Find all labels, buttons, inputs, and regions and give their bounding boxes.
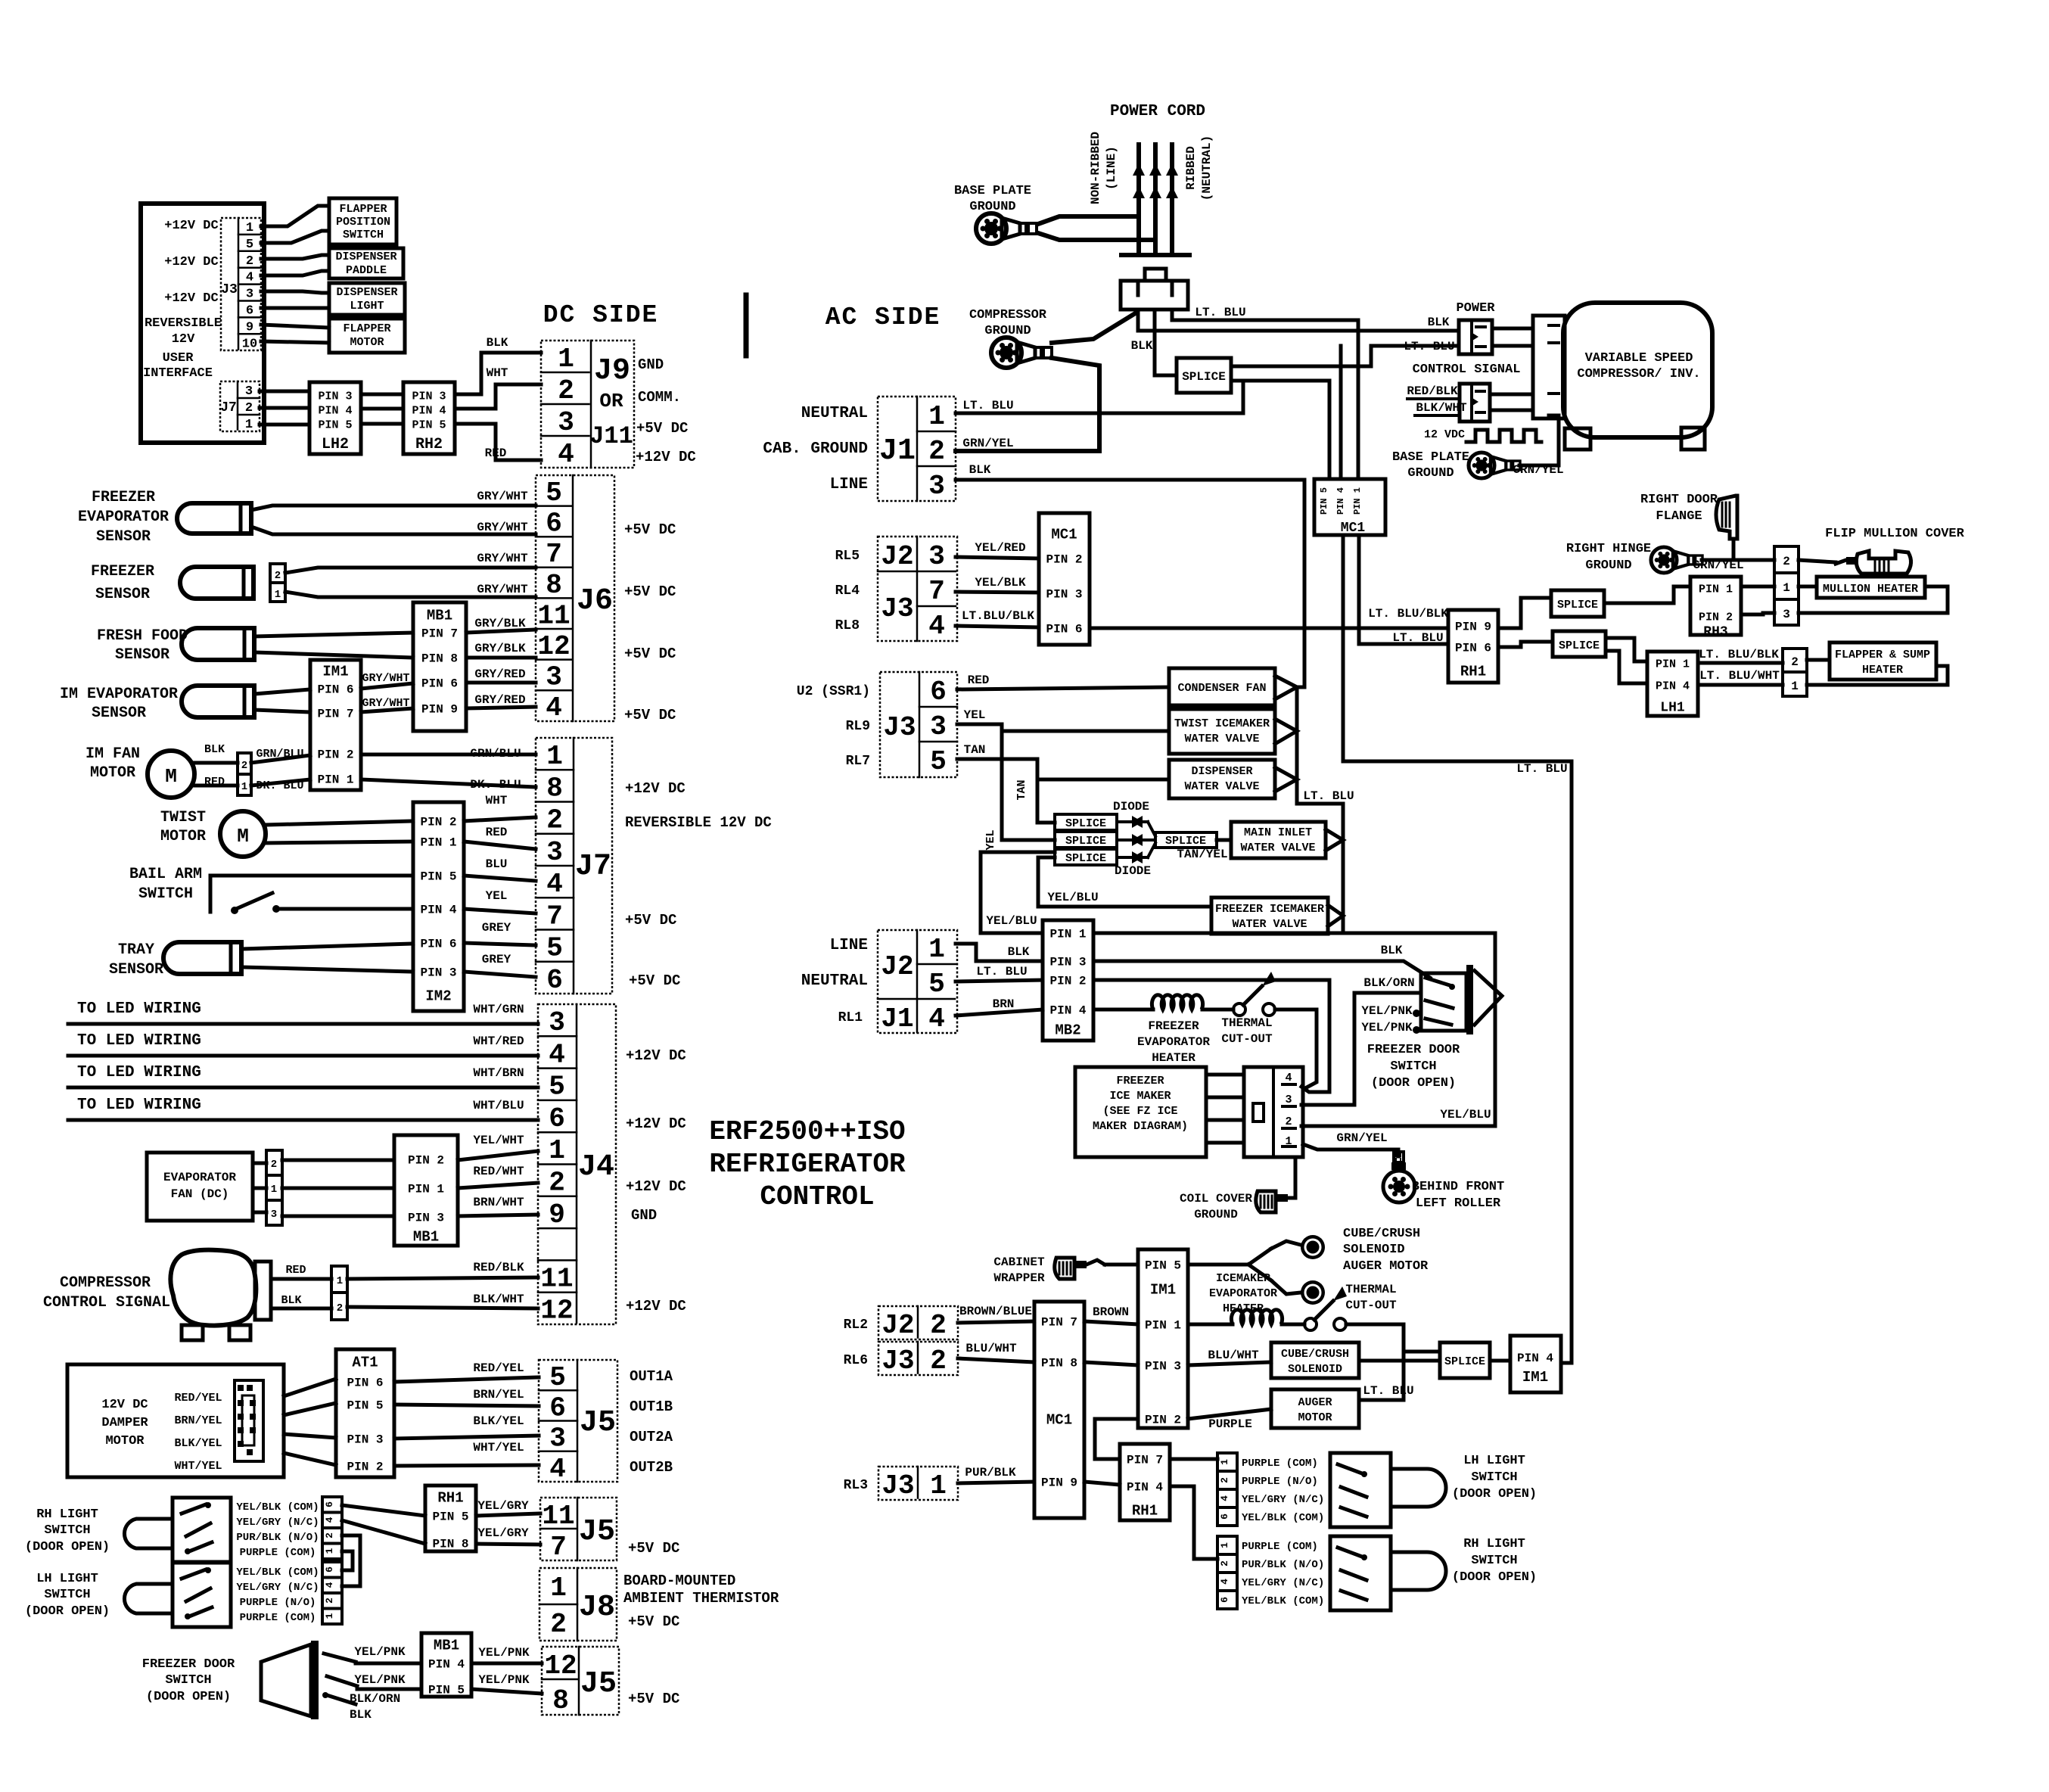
LH light switch connector (right) — [1217, 1453, 1237, 1526]
svg-text:7: 7 — [546, 901, 563, 932]
svg-text:1: 1 — [246, 221, 253, 235]
wire splice2 to LH1 pin4 — [1606, 651, 1647, 683]
connector MC1 (top) — [1314, 479, 1385, 535]
svg-text:6: 6 — [324, 1566, 335, 1573]
svg-text:4: 4 — [1219, 1495, 1230, 1501]
svg-text:BLK: BLK — [969, 463, 991, 477]
svg-text:TWIST ICEMAKER: TWIST ICEMAKER — [1174, 717, 1270, 730]
svg-text:2: 2 — [241, 760, 247, 772]
svg-text:THERMAL: THERMAL — [1221, 1016, 1272, 1030]
wire 2-1 pin2 to flapper heater — [1807, 658, 1830, 662]
svg-text:YEL/GRY (N/C): YEL/GRY (N/C) — [236, 1582, 319, 1594]
svg-text:4: 4 — [549, 1039, 565, 1070]
svg-text:PIN 8: PIN 8 — [1041, 1357, 1077, 1370]
svg-text:GRN/YEL: GRN/YEL — [1336, 1131, 1387, 1145]
svg-text:MB2: MB2 — [1055, 1022, 1080, 1039]
svg-text:+5V DC: +5V DC — [628, 1540, 679, 1557]
svg-text:RIGHT DOOR: RIGHT DOOR — [1640, 493, 1718, 507]
svg-text:10: 10 — [242, 337, 257, 351]
svg-text:CUBE/CRUSH: CUBE/CRUSH — [1343, 1227, 1420, 1241]
splice 3 — [1055, 849, 1117, 865]
svg-text:BLK/ORN: BLK/ORN — [1363, 976, 1414, 990]
svg-text:LT. BLU: LT. BLU — [1303, 789, 1354, 803]
splice 4 — [1155, 832, 1217, 848]
svg-text:GRY/WHT: GRY/WHT — [477, 521, 528, 534]
wire rh1 pin6 to splice2 — [1498, 642, 1553, 647]
svg-text:PUR/BLK (N/O): PUR/BLK (N/O) — [1242, 1559, 1324, 1571]
freezer door switch enclosure wire — [1093, 933, 1495, 1126]
svg-text:2: 2 — [930, 1310, 947, 1341]
svg-text:EVAPORATOR: EVAPORATOR — [1209, 1287, 1277, 1300]
svg-text:FREEZER ICEMAKER: FREEZER ICEMAKER — [1215, 903, 1324, 916]
svg-text:SWITCH: SWITCH — [1390, 1059, 1436, 1074]
svg-text:IM2: IM2 — [425, 988, 451, 1005]
svg-text:1: 1 — [1791, 680, 1799, 693]
connector RH1 (icemaker side) — [1120, 1444, 1170, 1520]
svg-text:J1: J1 — [879, 434, 916, 468]
svg-text:2: 2 — [928, 436, 945, 467]
connector J1 — [878, 397, 956, 501]
svg-text:J5: J5 — [579, 1515, 615, 1549]
svg-text:OR: OR — [599, 390, 623, 412]
wire splice top to RH3 pin1 — [1604, 586, 1690, 603]
wire LH1 pin4 to 2-1 connector — [1698, 683, 1783, 687]
svg-text:WHT/BRN: WHT/BRN — [473, 1066, 524, 1080]
svg-text:J2: J2 — [881, 1310, 914, 1341]
svg-text:TO LED WIRING: TO LED WIRING — [77, 1000, 201, 1018]
svg-text:7: 7 — [550, 1532, 567, 1563]
svg-text:BASE PLATE: BASE PLATE — [1392, 450, 1469, 465]
svg-text:RL9: RL9 — [846, 719, 870, 734]
svg-text:YEL/BLK (COM): YEL/BLK (COM) — [1242, 1595, 1324, 1607]
svg-text:+12V DC: +12V DC — [164, 255, 218, 269]
svg-text:FLIP MULLION COVER: FLIP MULLION COVER — [1825, 527, 1964, 541]
svg-text:3: 3 — [549, 1423, 566, 1454]
cube/crush solenoid box — [1271, 1342, 1359, 1378]
wire J3-10 to flapper motor — [261, 341, 329, 343]
wire base plate ground to compressor conn — [1519, 415, 1559, 465]
svg-text:LT. BLU: LT. BLU — [1516, 762, 1567, 776]
svg-text:WATER VALVE: WATER VALVE — [1184, 780, 1259, 793]
connector IM1 (sensors) — [310, 660, 361, 790]
svg-text:AUGER MOTOR: AUGER MOTOR — [1343, 1259, 1429, 1274]
svg-text:8: 8 — [552, 1685, 569, 1716]
svg-text:LT. BLU/BLK: LT. BLU/BLK — [1368, 607, 1448, 621]
svg-text:LH LIGHT: LH LIGHT — [36, 1572, 98, 1586]
svg-text:J1: J1 — [881, 1003, 913, 1034]
svg-text:3: 3 — [930, 711, 947, 742]
svg-text:11: 11 — [542, 1501, 574, 1532]
svg-text:3: 3 — [928, 471, 945, 502]
svg-text:PIN 1: PIN 1 — [408, 1183, 444, 1196]
svg-text:M: M — [237, 825, 249, 848]
svg-text:WHT/RED: WHT/RED — [473, 1034, 524, 1048]
svg-text:COMPRESSOR: COMPRESSOR — [969, 308, 1047, 322]
svg-text:POWER: POWER — [1456, 301, 1495, 316]
svg-text:LH LIGHT: LH LIGHT — [1463, 1454, 1525, 1468]
wire fresh food sensor to MB1 pin8 — [254, 652, 413, 658]
svg-text:SOLENOID: SOLENOID — [1343, 1243, 1405, 1257]
svg-text:NEUTRAL: NEUTRAL — [801, 405, 868, 422]
wire RL7 to dispenser valve — [1037, 778, 1169, 782]
wire MC1 pin4 down to LT.BLU bus — [1343, 535, 1572, 761]
svg-text:GRY/WHT: GRY/WHT — [477, 583, 528, 596]
svg-text:HEATER: HEATER — [1862, 664, 1903, 677]
svg-text:GREY: GREY — [482, 953, 511, 966]
svg-text:TO LED WIRING: TO LED WIRING — [77, 1064, 201, 1081]
svg-text:4: 4 — [928, 1003, 945, 1034]
diode fan-in to splice4 — [1148, 822, 1155, 836]
wire J3-3 to dispenser light — [261, 291, 329, 293]
svg-text:BROWN: BROWN — [1093, 1305, 1129, 1319]
connector J2/J3 (RL5 RL4 RL8) — [878, 537, 957, 641]
svg-text:3: 3 — [558, 407, 574, 438]
svg-text:J9: J9 — [594, 354, 630, 388]
svg-text:PADDLE: PADDLE — [346, 264, 387, 277]
svg-text:MB1: MB1 — [413, 1229, 439, 1246]
svg-text:SPLICE: SPLICE — [1165, 835, 1206, 848]
svg-text:RH1: RH1 — [1132, 1503, 1158, 1520]
wires RH switch conn to RH1 — [342, 1505, 425, 1516]
svg-text:MB1: MB1 — [434, 1638, 459, 1654]
RH light switch connector (right) — [1217, 1536, 1237, 1609]
svg-text:(SEE FZ ICE: (SEE FZ ICE — [1102, 1105, 1177, 1118]
connector RH1 (mullion) — [1448, 610, 1498, 683]
flapper motor box — [329, 319, 405, 353]
svg-text:DC SIDE: DC SIDE — [543, 301, 659, 329]
svg-text:3: 3 — [271, 1209, 277, 1221]
IM fan motor 2-pin connector — [238, 753, 251, 795]
svg-text:1: 1 — [1219, 1459, 1230, 1465]
behind front left roller lug — [1394, 1152, 1404, 1162]
svg-text:OUT1B: OUT1B — [630, 1398, 673, 1415]
svg-text:SENSOR: SENSOR — [92, 705, 146, 722]
svg-text:RH2: RH2 — [415, 436, 443, 453]
wire hinge ground to 2-1-3 connector — [1702, 558, 1774, 562]
svg-text:PURPLE (N/O): PURPLE (N/O) — [240, 1597, 316, 1609]
svg-text:RL8: RL8 — [835, 618, 860, 633]
svg-text:+12V DC: +12V DC — [626, 1298, 686, 1314]
svg-text:SPLICE: SPLICE — [1065, 835, 1106, 848]
svg-text:RL7: RL7 — [846, 754, 870, 769]
connector J5 (11/7) — [540, 1498, 617, 1560]
svg-text:PIN 2: PIN 2 — [1046, 553, 1082, 567]
svg-text:FREEZER: FREEZER — [91, 563, 154, 580]
svg-text:4: 4 — [928, 611, 945, 642]
svg-text:BRN: BRN — [993, 997, 1015, 1011]
svg-text:DISPENSER: DISPENSER — [1191, 765, 1252, 778]
condenser fan box — [1169, 668, 1275, 705]
svg-text:CUT-OUT: CUT-OUT — [1345, 1299, 1397, 1312]
svg-text:SWITCH: SWITCH — [1471, 1470, 1517, 1485]
connector RH2 — [403, 382, 455, 454]
svg-text:LT. BLU/WHT: LT. BLU/WHT — [1699, 669, 1780, 683]
svg-text:PIN 1: PIN 1 — [1352, 487, 1363, 515]
wire evap fan conn to MB1 pin3 — [282, 1215, 394, 1218]
svg-text:BLU/WHT: BLU/WHT — [965, 1342, 1017, 1355]
svg-text:SENSOR: SENSOR — [115, 646, 169, 664]
svg-text:1: 1 — [271, 1184, 277, 1196]
compressor inline connector 1/2 — [331, 1266, 347, 1320]
svg-text:BLU/WHT: BLU/WHT — [1208, 1349, 1259, 1362]
svg-text:BRN/WHT: BRN/WHT — [473, 1196, 524, 1209]
svg-text:J7: J7 — [575, 850, 611, 884]
evaporator fan (DC) box — [147, 1153, 253, 1221]
thermal cut-out (icemaker) — [1282, 1323, 1304, 1327]
wire J3-6 to dispenser light — [261, 306, 329, 310]
svg-text:FLANGE: FLANGE — [1656, 509, 1702, 524]
svg-text:POSITION: POSITION — [336, 216, 390, 229]
svg-text:PIN 3: PIN 3 — [318, 390, 352, 403]
svg-text:(DOOR OPEN): (DOOR OPEN) — [146, 1690, 231, 1704]
wire thermal cutout down to splice — [1404, 1350, 1440, 1354]
svg-text:PIN 5: PIN 5 — [347, 1399, 383, 1413]
auger motor box — [1271, 1389, 1359, 1428]
svg-text:SWITCH: SWITCH — [44, 1523, 90, 1538]
svg-text:J4: J4 — [578, 1150, 614, 1184]
wire evap fan conn to MB1 pin2 — [282, 1159, 394, 1162]
svg-text:1: 1 — [337, 1275, 343, 1287]
svg-text:WHT: WHT — [486, 794, 508, 807]
svg-text:GRN/YEL: GRN/YEL — [962, 437, 1013, 450]
compressor symbol — [170, 1250, 256, 1326]
svg-text:J7: J7 — [220, 400, 237, 415]
cube/crush solenoid lug — [1301, 1235, 1325, 1259]
svg-text:IM1: IM1 — [1522, 1369, 1548, 1386]
svg-text:YEL/PNK: YEL/PNK — [478, 1673, 530, 1687]
svg-text:WRAPPER: WRAPPER — [993, 1271, 1045, 1285]
svg-text:RIBBED: RIBBED — [1184, 146, 1198, 190]
svg-text:PIN 1: PIN 1 — [1145, 1319, 1181, 1333]
svg-text:WATER VALVE: WATER VALVE — [1232, 918, 1307, 931]
wire MC1 pin8 to IM1 pin3 — [1084, 1362, 1138, 1365]
right hinge ground lug — [1651, 547, 1702, 573]
connector J7 (user interface) — [220, 381, 260, 431]
connector LH2 — [309, 382, 361, 454]
power relay symbol — [1459, 320, 1492, 354]
svg-text:ICEMAKER: ICEMAKER — [1216, 1272, 1270, 1285]
svg-text:9: 9 — [246, 320, 253, 334]
wire RH1 pin7 to LH connector — [1170, 1458, 1217, 1461]
svg-text:+5V DC: +5V DC — [629, 972, 680, 989]
svg-text:PIN 6: PIN 6 — [1455, 642, 1491, 655]
svg-text:YEL/RED: YEL/RED — [975, 541, 1025, 555]
connector MB2 — [1043, 920, 1093, 1041]
svg-text:YEL/BLU: YEL/BLU — [1047, 891, 1098, 904]
wire J3-9 to flapper motor — [261, 325, 329, 328]
svg-text:BEHIND FRONT: BEHIND FRONT — [1412, 1180, 1504, 1194]
svg-text:MAIN INLET: MAIN INLET — [1244, 826, 1312, 839]
freezer icemaker water valve box — [1211, 898, 1328, 934]
svg-text:BLK/YEL: BLK/YEL — [174, 1437, 222, 1450]
svg-text:9: 9 — [549, 1199, 565, 1230]
svg-text:PURPLE (COM): PURPLE (COM) — [240, 1547, 316, 1559]
svg-text:YEL: YEL — [984, 829, 997, 850]
svg-text:6: 6 — [549, 1103, 565, 1134]
svg-text:RL4: RL4 — [835, 583, 860, 599]
wire icemaker pin1 to coil cover ground — [1288, 1157, 1295, 1198]
svg-text:3: 3 — [549, 1007, 565, 1038]
damper fanout wires — [284, 1379, 336, 1396]
svg-text:J3: J3 — [881, 593, 913, 624]
connector RH3 — [1690, 577, 1741, 635]
svg-text:AT1: AT1 — [352, 1355, 378, 1371]
wire flapper heater loop — [1807, 666, 1948, 685]
svg-text:PUR/BLK (N/O): PUR/BLK (N/O) — [236, 1532, 319, 1544]
svg-text:EVAPORATOR: EVAPORATOR — [1137, 1035, 1210, 1049]
svg-text:ICE MAKER: ICE MAKER — [1109, 1090, 1171, 1103]
svg-text:12: 12 — [540, 1296, 573, 1327]
svg-text:4: 4 — [1219, 1579, 1230, 1585]
svg-text:2: 2 — [1219, 1477, 1230, 1483]
svg-text:LH1: LH1 — [1660, 700, 1685, 715]
svg-text:PIN 2: PIN 2 — [1049, 975, 1086, 988]
svg-text:PIN 4: PIN 4 — [1656, 680, 1690, 692]
svg-text:PIN 5: PIN 5 — [432, 1510, 468, 1524]
wire splice to PIN4 IM1 — [1490, 1359, 1510, 1363]
svg-text:RL1: RL1 — [838, 1010, 863, 1025]
svg-text:FLAPPER: FLAPPER — [343, 322, 390, 335]
wire evaporator sensor to IM1 pin7 — [254, 710, 310, 712]
svg-text:POWER CORD: POWER CORD — [1110, 103, 1205, 120]
svg-text:MOTOR: MOTOR — [1298, 1411, 1332, 1424]
svg-text:+5V DC: +5V DC — [624, 646, 676, 662]
svg-text:DIODE: DIODE — [1115, 864, 1151, 878]
svg-text:LT.BLU/BLK: LT.BLU/BLK — [962, 609, 1034, 623]
svg-text:1: 1 — [558, 344, 574, 375]
svg-text:2: 2 — [337, 1302, 343, 1314]
svg-text:SWITCH: SWITCH — [343, 229, 384, 241]
wire MB2 pin2 LT. BLU to icemaker pin4 — [1093, 980, 1329, 1092]
svg-text:OUT2B: OUT2B — [630, 1459, 673, 1476]
svg-text:VARIABLE SPEED: VARIABLE SPEED — [1585, 351, 1693, 366]
svg-text:BRN/YEL: BRN/YEL — [473, 1388, 524, 1402]
svg-text:GND: GND — [638, 356, 664, 373]
wire splice4 to main inlet valve — [1217, 838, 1231, 842]
svg-text:YEL/BLK (COM): YEL/BLK (COM) — [236, 1566, 319, 1579]
wire rh1 pin9 to splice top — [1498, 598, 1551, 628]
connector 2/1/3 (mullion) — [1774, 546, 1799, 625]
wire IM1 pin2 left elbow — [1095, 1419, 1138, 1459]
svg-text:CONTROL SIGNAL: CONTROL SIGNAL — [1413, 362, 1521, 377]
svg-text:2: 2 — [550, 1609, 567, 1640]
svg-text:CABINET: CABINET — [993, 1255, 1045, 1269]
control relay symbol — [1460, 384, 1490, 422]
wires power relay to compressor connector — [1492, 327, 1533, 331]
svg-text:2: 2 — [549, 1168, 565, 1199]
svg-text:WHT/YEL: WHT/YEL — [174, 1460, 222, 1473]
svg-text:5: 5 — [930, 746, 947, 777]
connector J8 — [539, 1568, 617, 1641]
svg-text:SOLENOID: SOLENOID — [1288, 1363, 1342, 1376]
svg-text:MC1: MC1 — [1051, 527, 1077, 543]
svg-text:PIN 3: PIN 3 — [347, 1433, 383, 1447]
svg-text:4: 4 — [546, 869, 563, 900]
svg-text:5: 5 — [549, 1072, 565, 1103]
svg-text:5: 5 — [549, 1362, 566, 1393]
wire J3-4 to dispenser paddle — [261, 271, 329, 275]
svg-text:RED/BLK: RED/BLK — [473, 1261, 524, 1274]
mullion heater box — [1817, 577, 1925, 598]
freezer ice maker box — [1075, 1067, 1206, 1157]
svg-text:EVAPORATOR: EVAPORATOR — [163, 1171, 236, 1184]
svg-text:OUT1A: OUT1A — [630, 1368, 673, 1385]
svg-text:J3: J3 — [881, 1346, 914, 1377]
connector J2/J1 (LINE NEUTRAL RL1) — [878, 930, 957, 1033]
svg-text:1: 1 — [275, 589, 281, 601]
svg-text:YEL/BLK (COM): YEL/BLK (COM) — [1242, 1512, 1324, 1524]
svg-text:6: 6 — [324, 1501, 335, 1507]
svg-text:FREEZER: FREEZER — [92, 489, 155, 506]
flapper position switch box — [329, 198, 396, 244]
wire tray sensor to IM2 pin6 — [241, 944, 413, 949]
svg-text:PIN 4: PIN 4 — [1049, 1004, 1086, 1018]
compressor feet — [1565, 428, 1590, 450]
svg-text:MOTOR: MOTOR — [350, 336, 384, 349]
svg-text:SPLICE: SPLICE — [1065, 817, 1106, 830]
connector J7 — [536, 738, 612, 994]
svg-text:IM EVAPORATOR: IM EVAPORATOR — [60, 686, 178, 703]
svg-text:J2: J2 — [881, 541, 913, 572]
svg-text:+5V DC: +5V DC — [628, 1691, 679, 1707]
svg-text:PURPLE (COM): PURPLE (COM) — [1242, 1458, 1318, 1470]
wire auger motor to LT.BLU bus — [1359, 1352, 1404, 1400]
svg-text:PIN 5: PIN 5 — [1145, 1259, 1181, 1273]
main inlet water valve box — [1231, 822, 1326, 858]
splice (power) — [1177, 358, 1231, 393]
svg-text:PIN 1: PIN 1 — [420, 836, 456, 850]
compressor pigtail connector — [255, 1262, 271, 1320]
svg-text:+5V DC: +5V DC — [624, 707, 676, 723]
svg-text:1: 1 — [546, 741, 563, 772]
svg-text:TAN: TAN — [1015, 779, 1028, 800]
svg-text:YEL/PNK: YEL/PNK — [1361, 1021, 1413, 1034]
svg-text:3: 3 — [245, 384, 253, 399]
auger motor lug — [1301, 1280, 1325, 1305]
svg-text:PIN 6: PIN 6 — [420, 938, 456, 951]
svg-text:BLU: BLU — [486, 857, 508, 871]
svg-text:+12V DC: +12V DC — [164, 291, 218, 306]
svg-text:PIN 3: PIN 3 — [1145, 1360, 1181, 1374]
svg-text:+5V DC: +5V DC — [636, 420, 688, 437]
svg-text:GND: GND — [631, 1207, 657, 1224]
svg-text:5: 5 — [546, 933, 563, 964]
svg-text:BLK/WHT: BLK/WHT — [473, 1293, 524, 1306]
svg-text:RL3: RL3 — [844, 1478, 868, 1493]
wire J3-2 to dispenser paddle — [261, 255, 329, 259]
svg-text:THERMAL: THERMAL — [1345, 1283, 1396, 1296]
svg-text:RH LIGHT: RH LIGHT — [1463, 1537, 1525, 1551]
svg-text:MOTOR: MOTOR — [90, 764, 135, 782]
svg-text:MB1: MB1 — [427, 608, 452, 624]
svg-text:BLK: BLK — [350, 1708, 372, 1722]
svg-text:YEL/WHT: YEL/WHT — [473, 1134, 524, 1147]
svg-text:PIN 4: PIN 4 — [420, 904, 456, 917]
svg-text:J6: J6 — [577, 584, 613, 618]
svg-text:LEFT ROLLER: LEFT ROLLER — [1416, 1196, 1501, 1211]
svg-text:TAN: TAN — [964, 743, 986, 757]
svg-text:2: 2 — [245, 401, 253, 415]
svg-text:IM1: IM1 — [1150, 1282, 1176, 1299]
svg-text:RED: RED — [486, 826, 508, 839]
coil cover ground symbol — [1256, 1191, 1276, 1212]
svg-text:PURPLE (N/O): PURPLE (N/O) — [1242, 1476, 1318, 1488]
svg-text:YEL/BLK (COM): YEL/BLK (COM) — [236, 1501, 319, 1514]
svg-text:GROUND: GROUND — [1194, 1208, 1238, 1221]
svg-text:1: 1 — [928, 401, 945, 432]
svg-text:6: 6 — [246, 304, 253, 319]
svg-text:WATER VALVE: WATER VALVE — [1184, 733, 1259, 745]
